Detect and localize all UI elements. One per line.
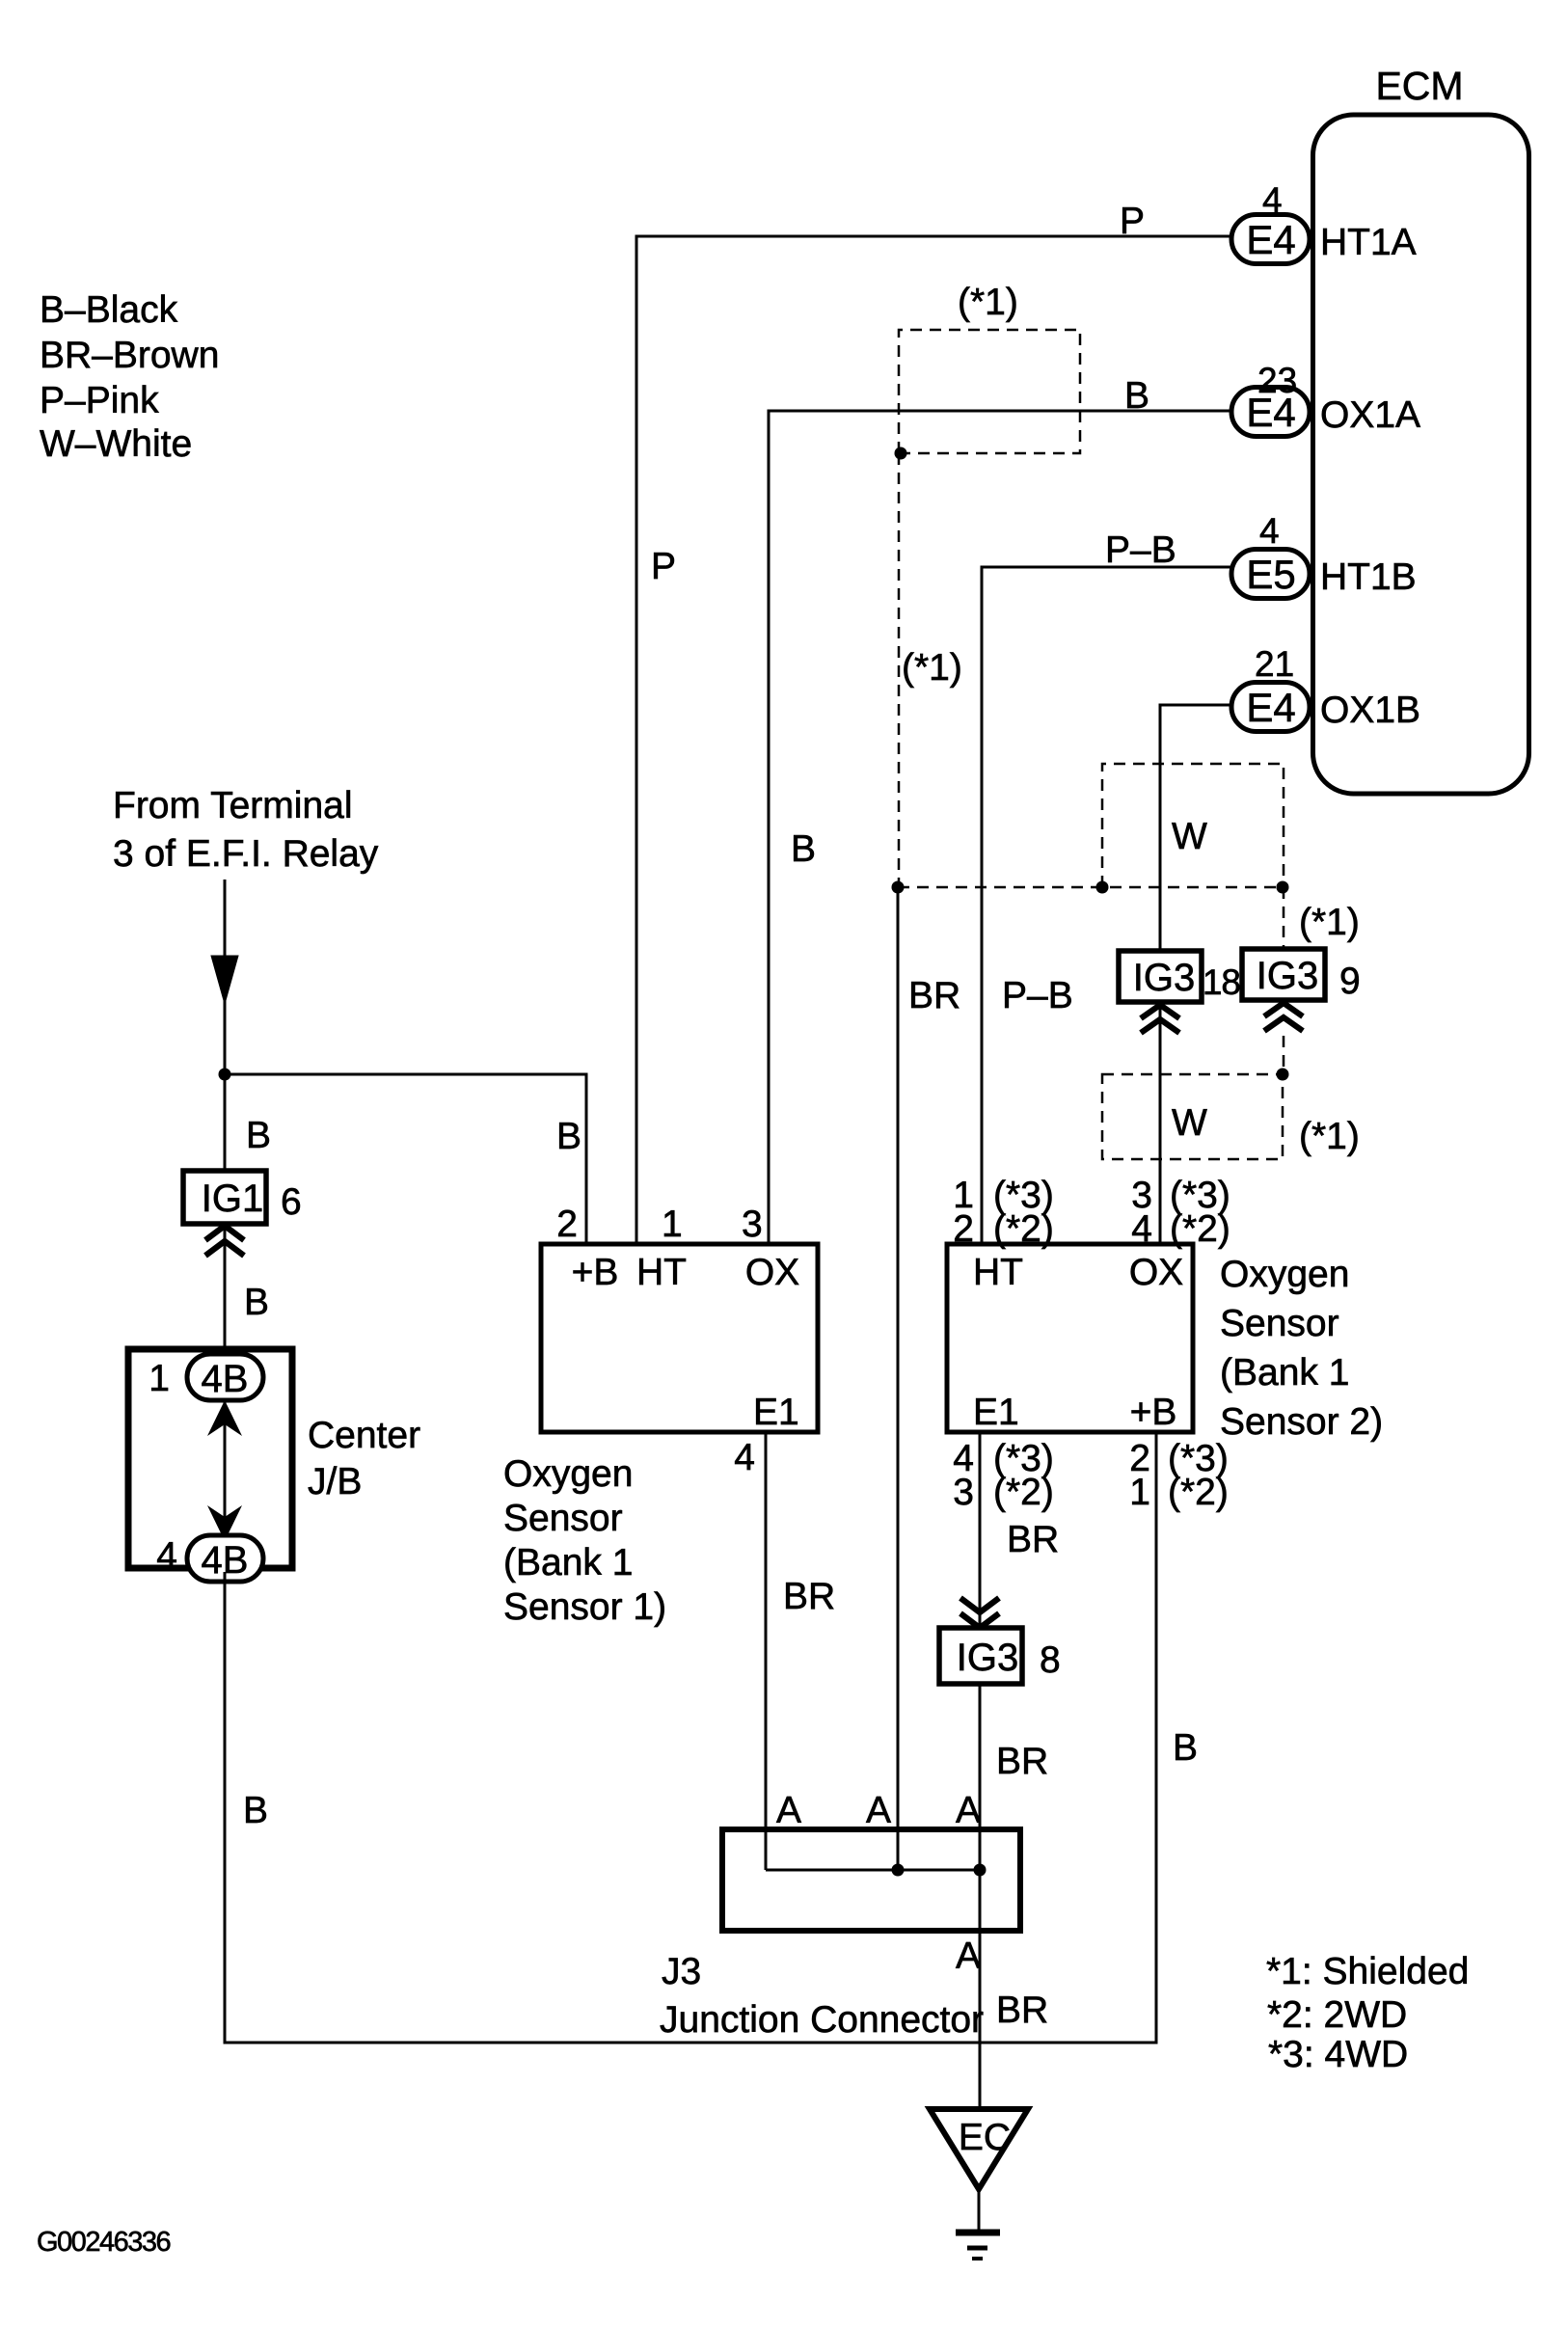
- label Center J/B: [308, 1415, 420, 1502]
- svg-text:OX1A: OX1A: [1320, 394, 1420, 436]
- svg-text:4: 4: [1259, 511, 1280, 551]
- wire BR IG3-8 to J3 and EC: [979, 1684, 982, 2109]
- svg-text:From Terminal: From Terminal: [113, 785, 353, 826]
- svg-text:E4: E4: [1246, 217, 1295, 262]
- svg-text:E5: E5: [1246, 552, 1295, 597]
- wire P-B (HT1B to sensor2 HT): [982, 567, 1232, 1244]
- svg-text:W–White: W–White: [40, 423, 192, 465]
- svg-text:ECM: ECM: [1375, 64, 1463, 108]
- junction node at EFI branch: [219, 1069, 231, 1081]
- label oxygen sensor bank1 sensor1: [503, 1453, 666, 1628]
- label oxygen sensor bank1 sensor2: [1220, 1254, 1383, 1443]
- svg-text:8: 8: [1040, 1639, 1061, 1681]
- shield dashed link to IG3-9: [1283, 887, 1285, 949]
- chevron above IG3-8: [960, 1598, 999, 1628]
- svg-text:3 of E.F.I. Relay: 3 of E.F.I. Relay: [113, 833, 379, 875]
- shield node dot top: [895, 447, 907, 460]
- connector 4B pin 1 (top): [187, 1354, 263, 1400]
- note From Terminal 3 of E.F.I. Relay: [113, 785, 379, 875]
- svg-text:A: A: [956, 1790, 981, 1831]
- svg-text:P–B: P–B: [1105, 529, 1176, 571]
- wire B from EFI relay down to IG1: [224, 880, 227, 1171]
- wire BR sensor2 E1 to IG3-8: [979, 1432, 982, 1628]
- svg-text:9: 9: [1339, 961, 1361, 1002]
- svg-text:BR: BR: [996, 1990, 1048, 2031]
- shield dashed W box lower: [1102, 1074, 1283, 1159]
- chevron under IG3-18: [1141, 1005, 1179, 1033]
- svg-text:*2: 2WD: *2: 2WD: [1267, 1994, 1407, 2036]
- shield dashed link IG3-9 to W box lower: [1283, 1036, 1285, 1074]
- svg-text:J3: J3: [662, 1951, 701, 1992]
- svg-text:(*2): (*2): [993, 1208, 1054, 1250]
- wire P (HT1A to sensor1 HT): [636, 236, 1231, 1244]
- J3 junction connector box: [722, 1829, 1020, 1931]
- J3 internal bus wire: [766, 1869, 980, 1872]
- svg-text:Oxygen: Oxygen: [1220, 1254, 1349, 1295]
- wire B (OX1A to sensor1 OX): [769, 411, 1231, 1244]
- svg-text:B: B: [791, 828, 816, 870]
- svg-text:J/B: J/B: [308, 1461, 362, 1502]
- J3 node dot left: [892, 1864, 905, 1877]
- sensor2 pin numbers HT top: [953, 1175, 1054, 1250]
- wire IG1 to Center J/B: [224, 1224, 227, 1354]
- shield node dot left: [892, 881, 905, 894]
- down arrow in Center J/B: [207, 1505, 242, 1541]
- svg-text:1: 1: [1129, 1472, 1150, 1513]
- wire W (OX1B to IG3-18): [1160, 705, 1231, 951]
- J3 node dot right: [974, 1864, 987, 1877]
- svg-text:4: 4: [734, 1437, 755, 1478]
- svg-text:(*1): (*1): [1299, 1116, 1360, 1157]
- svg-text:E1: E1: [973, 1392, 1019, 1433]
- svg-text:E4: E4: [1246, 685, 1295, 730]
- svg-text:4: 4: [1131, 1208, 1152, 1250]
- svg-text:Sensor 2): Sensor 2): [1220, 1401, 1383, 1443]
- svg-text:(*1): (*1): [902, 647, 962, 689]
- svg-text:HT1B: HT1B: [1320, 556, 1417, 598]
- svg-text:3: 3: [742, 1204, 763, 1245]
- svg-text:IG3: IG3: [957, 1637, 1018, 1679]
- svg-text:2: 2: [953, 1208, 974, 1250]
- connector 4B pin 4 (bottom): [187, 1535, 263, 1582]
- svg-text:B: B: [244, 1282, 269, 1323]
- svg-text:EC: EC: [959, 2117, 1011, 2158]
- svg-text:B: B: [1124, 375, 1149, 417]
- svg-text:BR: BR: [996, 1741, 1048, 1782]
- svg-text:HT1A: HT1A: [1320, 222, 1417, 263]
- svg-text:1: 1: [662, 1204, 683, 1245]
- oxygen sensor bank1 sensor1 box: [541, 1244, 818, 1432]
- wire W (IG3-18 to sensor2 OX): [1159, 1002, 1162, 1244]
- svg-text:G00246336: G00246336: [37, 2227, 170, 2258]
- shield dashed W box upper: [1102, 764, 1284, 887]
- svg-text:*1: Shielded: *1: Shielded: [1266, 1951, 1469, 1992]
- arrowhead on EFI relay feed: [211, 956, 238, 1004]
- svg-text:21: 21: [1255, 644, 1294, 684]
- ECM box: [1313, 115, 1529, 794]
- sensor2 pin numbers E1 bottom: [953, 1438, 1054, 1513]
- svg-text:Sensor 1): Sensor 1): [503, 1586, 666, 1628]
- svg-text:Oxygen: Oxygen: [503, 1453, 633, 1495]
- svg-text:P–Pink: P–Pink: [40, 380, 159, 421]
- svg-text:B–Black: B–Black: [40, 289, 178, 331]
- connector IG1 pin 6: [183, 1171, 266, 1224]
- svg-text:Junction Connector: Junction Connector: [660, 1999, 984, 2041]
- svg-text:*3: 4WD: *3: 4WD: [1268, 2034, 1408, 2075]
- svg-text:A: A: [776, 1790, 801, 1831]
- shield node dot W box lower: [1277, 1069, 1289, 1081]
- Center J/B box: [128, 1349, 292, 1568]
- svg-text:HT: HT: [973, 1252, 1023, 1293]
- svg-text:(*2): (*2): [1168, 1472, 1229, 1513]
- shield wire solid to J3: [897, 887, 900, 1870]
- label J3 Junction Connector: [660, 1951, 984, 2041]
- svg-text:4: 4: [1262, 180, 1283, 220]
- svg-text:23: 23: [1257, 361, 1297, 400]
- svg-text:(Bank 1: (Bank 1: [503, 1542, 633, 1584]
- wire EC to ground: [978, 2189, 981, 2233]
- svg-text:(Bank 1: (Bank 1: [1220, 1352, 1349, 1394]
- chevron under IG3-9: [1264, 1003, 1303, 1031]
- svg-text:4B: 4B: [202, 1358, 249, 1400]
- svg-text:BR: BR: [908, 975, 960, 1016]
- svg-text:IG1: IG1: [202, 1178, 263, 1220]
- svg-text:OX: OX: [745, 1252, 799, 1293]
- svg-text:3: 3: [953, 1472, 974, 1513]
- svg-text:1: 1: [149, 1358, 170, 1399]
- svg-text:+B: +B: [572, 1252, 619, 1293]
- svg-text:W: W: [1172, 1102, 1207, 1144]
- shield node dot mid: [1096, 881, 1109, 894]
- svg-text:B: B: [243, 1790, 268, 1831]
- svg-text:IG3: IG3: [1257, 955, 1318, 997]
- connector IG3 pin 9: [1242, 949, 1325, 1000]
- svg-text:HT: HT: [636, 1252, 687, 1293]
- svg-text:4: 4: [156, 1535, 177, 1577]
- connector IG3 pin 18: [1119, 951, 1202, 1002]
- svg-text:(*1): (*1): [958, 282, 1018, 323]
- svg-text:IG3: IG3: [1133, 957, 1195, 999]
- svg-text:(*2): (*2): [993, 1472, 1054, 1513]
- connector E4 pin 23 OX1A: [1231, 388, 1310, 437]
- shield dashed horizontal: [898, 886, 1283, 889]
- svg-text:Center: Center: [308, 1415, 420, 1456]
- svg-text:B: B: [246, 1115, 271, 1156]
- connector E5 pin 4 HT1B: [1231, 550, 1310, 599]
- shield dashed vertical: [898, 453, 901, 887]
- svg-text:E1: E1: [753, 1392, 799, 1433]
- internal wire in Center J/B: [224, 1400, 227, 1536]
- svg-text:Sensor: Sensor: [503, 1498, 623, 1539]
- svg-text:P: P: [1120, 201, 1145, 242]
- oxygen sensor bank1 sensor2 box: [947, 1244, 1193, 1432]
- svg-text:A: A: [956, 1935, 981, 1977]
- sensor2 pin numbers +B bottom: [1129, 1438, 1229, 1513]
- shield node dot right: [1277, 881, 1289, 894]
- svg-text:P–B: P–B: [1002, 975, 1073, 1016]
- wire B bottom run (Center J/B to sensor2 +B): [225, 1432, 1156, 2043]
- svg-text:P: P: [651, 546, 676, 587]
- svg-text:Sensor: Sensor: [1220, 1303, 1339, 1344]
- wire branch to sensor1 +B: [225, 1074, 586, 1244]
- legend color codes: [40, 289, 219, 465]
- notes *1 *2 *3: [1266, 1951, 1469, 2075]
- shield dashed box top (*1): [899, 330, 1080, 453]
- svg-text:(*1): (*1): [1299, 902, 1360, 943]
- svg-text:6: 6: [281, 1181, 302, 1223]
- svg-text:18: 18: [1203, 962, 1240, 1002]
- ground symbol: [956, 2233, 1000, 2259]
- svg-text:BR–Brown: BR–Brown: [40, 335, 219, 376]
- connector E4 pin 4 HT1A: [1231, 215, 1310, 264]
- wire BR sensor1 E1 to J3: [765, 1432, 768, 1870]
- svg-text:B: B: [556, 1116, 581, 1157]
- svg-text:2: 2: [556, 1204, 578, 1245]
- svg-text:OX1B: OX1B: [1320, 690, 1420, 731]
- svg-text:BR: BR: [783, 1576, 835, 1617]
- connector IG3 pin 8: [939, 1628, 1022, 1684]
- svg-text:B: B: [1173, 1727, 1198, 1769]
- chevron under IG1: [205, 1226, 244, 1256]
- svg-text:(*2): (*2): [1170, 1208, 1230, 1250]
- sensor2 pin numbers OX top: [1131, 1175, 1230, 1250]
- svg-text:BR: BR: [1007, 1519, 1059, 1560]
- svg-text:+B: +B: [1130, 1392, 1177, 1433]
- svg-text:W: W: [1172, 816, 1207, 857]
- connector E4 pin 21 OX1B: [1231, 683, 1310, 732]
- up arrow in Center J/B: [207, 1400, 242, 1436]
- svg-text:A: A: [866, 1790, 891, 1831]
- svg-text:OX: OX: [1129, 1252, 1183, 1293]
- ground EC triangle: [930, 2109, 1028, 2189]
